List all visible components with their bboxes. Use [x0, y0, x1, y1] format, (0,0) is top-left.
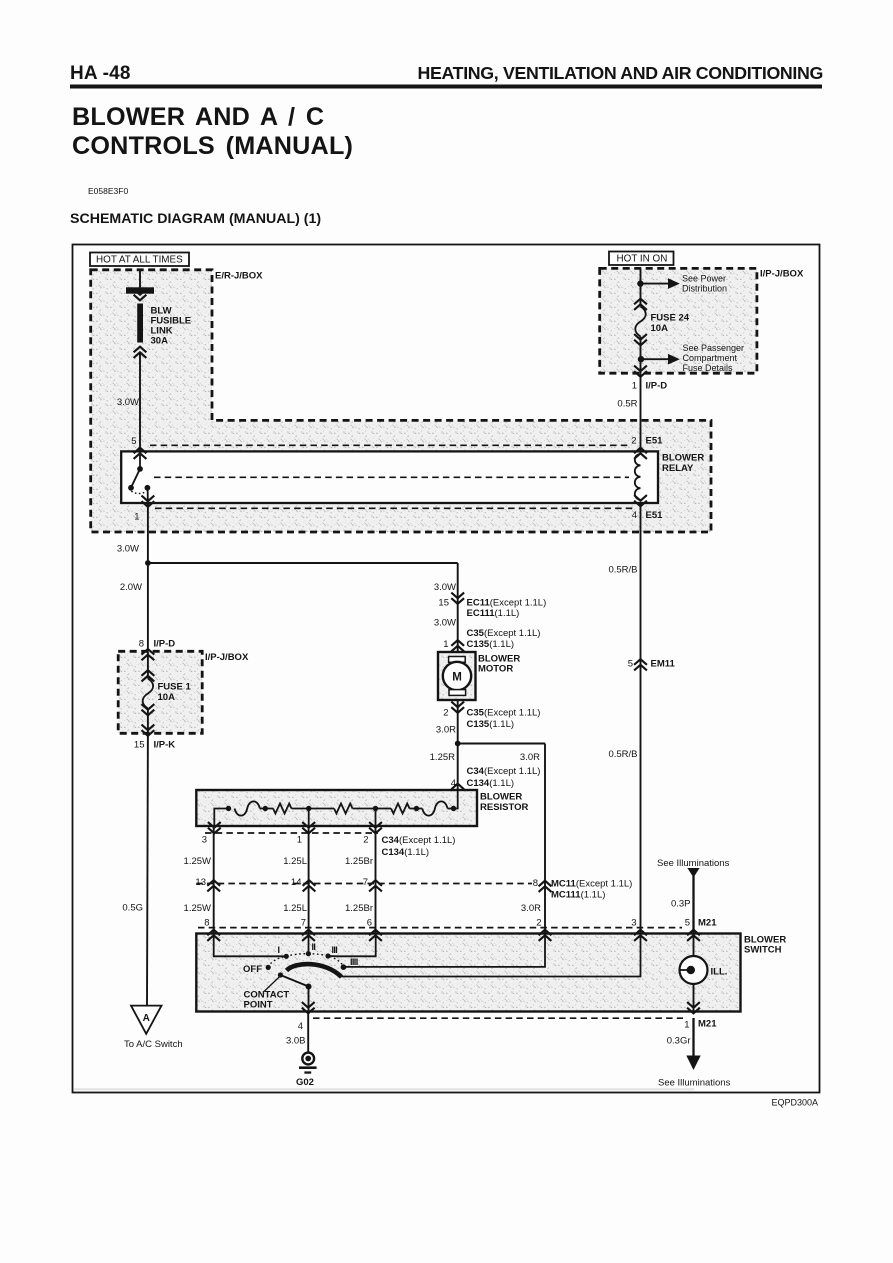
switch pin 1 chevron (lamp return): [687, 1002, 700, 1013]
wire seg: [292, 808, 309, 810]
svg-text:15: 15: [134, 740, 145, 751]
blower motor armature circle: [443, 662, 471, 690]
connector E51 dashed line (top of relay): [150, 444, 631, 446]
wire 1.25L: resistor pin 1 down: [308, 826, 310, 934]
svg-text:BLOWER: BLOWER: [662, 453, 704, 464]
svg-text:To A/C Switch: To A/C Switch: [124, 1039, 183, 1050]
wire 0.3P: illuminations to switch pin 5: [692, 876, 694, 934]
svg-text:7: 7: [363, 877, 368, 888]
relay pin 5 chevron: [134, 448, 147, 459]
svg-text:4: 4: [632, 510, 637, 521]
node: passenger fuse branch junction: [638, 356, 644, 362]
connector MC11 dashed line: [196, 883, 532, 885]
svg-text:See Power: See Power: [682, 274, 726, 284]
relay switch: fixed contact node: [137, 466, 143, 472]
svg-text:MOTOR: MOTOR: [478, 664, 513, 675]
connector EM11 pin 5 chevron: [634, 659, 647, 670]
resistor chain node: [263, 806, 268, 811]
connector C35 pin 2 chevron: [451, 702, 464, 713]
svg-text:3.0W: 3.0W: [117, 397, 139, 408]
tap wire to pin 1: [308, 809, 310, 827]
resistor chain node: [414, 806, 419, 811]
svg-text:Distribution: Distribution: [682, 284, 727, 294]
svg-text:7: 7: [301, 918, 306, 929]
connector chevron below fuse 24: [634, 334, 647, 345]
connector C35 pin 1 chevron: [451, 640, 464, 651]
terminal chevron below fusible link: [134, 347, 147, 358]
relay switch: arm end node: [128, 485, 134, 491]
arrow from illuminations: [687, 868, 699, 878]
header rule: [70, 85, 822, 89]
svg-text:2: 2: [536, 918, 541, 929]
resistor chain: left thermal coil: [235, 801, 260, 815]
E/R-J/BOX dashed region (shaded L-shape with blower relay): [91, 270, 711, 532]
relay switch: wire to pin 1: [147, 488, 149, 503]
relay pin 2 chevron: [634, 448, 647, 459]
ground G02 ring: [302, 1053, 314, 1065]
switch pin 7 chevron: [302, 930, 315, 941]
switch internal: pin 7 drop to contact II: [308, 934, 310, 954]
svg-text:POINT: POINT: [244, 1000, 273, 1011]
svg-text:IIII: IIII: [350, 957, 358, 967]
switch pin 2 chevron: [539, 930, 552, 941]
svg-text:14: 14: [291, 877, 302, 888]
blower relay box: [121, 451, 658, 503]
svg-text:3.0W: 3.0W: [117, 544, 139, 555]
blower resistor box: [196, 790, 477, 826]
svg-text:1.25L: 1.25L: [283, 856, 307, 867]
connector M21 dashed line (switch top): [198, 927, 682, 929]
chain left corner down to pin 3: [214, 809, 228, 827]
connector C34 dashed line (below resistor): [205, 832, 378, 834]
svg-text:M21: M21: [698, 1019, 717, 1030]
svg-text:HEATING, VENTILATION AND AIR C: HEATING, VENTILATION AND AIR CONDITIONIN…: [418, 63, 823, 83]
contact I node: [284, 954, 289, 959]
I/P-J/BOX dashed region (fuse 1): [118, 651, 202, 733]
resistor pin 3 chevron: [208, 822, 221, 833]
svg-text:10A: 10A: [158, 692, 176, 703]
switch internal: pin 8 drop to contact I: [214, 934, 287, 957]
connector I/P-K pin 15 chevron at box edge: [142, 725, 155, 736]
ILL lamp filament dot: [687, 966, 695, 974]
svg-text:1: 1: [297, 835, 302, 846]
resistor chain node: [451, 806, 456, 811]
relay internal dashed link: [154, 476, 629, 478]
contact IIII node: [341, 964, 347, 970]
svg-text:MC111(1.1L): MC111(1.1L): [551, 890, 605, 901]
svg-text:OFF: OFF: [243, 964, 262, 975]
wire 1.25R: junction down to resistor pin 4: [457, 744, 459, 791]
resistor chain node: [226, 806, 231, 811]
resistor chain: pin 4 entry drop: [454, 790, 458, 809]
svg-text:M: M: [452, 672, 462, 684]
svg-text:EM11: EM11: [651, 659, 676, 670]
MC11 pin 8 chevron: [539, 881, 552, 892]
wiper thick arc: [287, 964, 342, 977]
svg-text:I/P-J/BOX: I/P-J/BOX: [760, 269, 804, 280]
svg-text:8: 8: [533, 878, 538, 889]
svg-text:1.25L: 1.25L: [283, 903, 307, 914]
svg-text:RELAY: RELAY: [662, 463, 694, 474]
switch pin 5 chevron: [687, 930, 700, 941]
svg-text:8: 8: [139, 639, 144, 650]
off-page connector A (to A/C switch): [131, 1006, 162, 1034]
svg-text:30A: 30A: [151, 336, 169, 347]
svg-text:I/P-D: I/P-D: [154, 639, 176, 650]
svg-text:M21: M21: [698, 918, 717, 929]
wire seg: [353, 808, 376, 810]
resistor tap node pin 2: [373, 806, 378, 811]
svg-text:C135(1.1L): C135(1.1L): [467, 719, 515, 730]
wire 3.0W: feed down to blower motor: [457, 563, 459, 652]
wire: junction across to blower motor branch: [148, 562, 458, 564]
svg-text:E/R-J/BOX: E/R-J/BOX: [215, 271, 263, 282]
resistor pin 1 chevron: [302, 822, 315, 833]
connector C34 pin 4 chevron: [451, 784, 464, 795]
svg-text:13: 13: [195, 877, 206, 888]
svg-text:3: 3: [202, 835, 207, 846]
svg-text:See Illuminations: See Illuminations: [658, 1078, 731, 1089]
wire 3.0B: pin 4 to ground: [307, 1012, 309, 1053]
wire seg: [448, 808, 454, 810]
ILL lamp bulb: [680, 956, 708, 984]
relay coil: [635, 454, 641, 500]
svg-text:0.5R: 0.5R: [617, 399, 637, 410]
connector chevron above fuse 24: [634, 299, 647, 310]
svg-text:A: A: [143, 1013, 150, 1024]
svg-text:10A: 10A: [651, 323, 669, 334]
svg-text:5: 5: [131, 436, 136, 447]
svg-text:BLOWER: BLOWER: [480, 792, 522, 803]
wire seg: [410, 808, 423, 810]
pivot node: [306, 984, 312, 990]
svg-text:III: III: [332, 945, 338, 955]
ILL lamp lead line: [679, 969, 688, 971]
wire inside fuse 1 box: [147, 651, 149, 678]
MC11 pin 14 chevron: [303, 880, 316, 891]
svg-text:C135(1.1L): C135(1.1L): [467, 639, 515, 650]
svg-text:1: 1: [684, 1020, 689, 1031]
blower motor housing: [438, 652, 476, 700]
connector EC11 pin 15 chevron: [451, 593, 464, 604]
ILL lamp wire (bottom): [693, 984, 695, 1012]
connector M21 dashed line (switch bottom): [313, 1017, 683, 1019]
svg-text:G02: G02: [296, 1077, 314, 1088]
svg-text:C34(Except 1.1L): C34(Except 1.1L): [382, 835, 456, 846]
battery bus bar: [126, 287, 154, 293]
resistor element R3 zigzag: [391, 804, 409, 814]
schematic outer frame: [73, 245, 820, 1093]
switch pin 6 chevron: [369, 930, 382, 941]
wire: junction down to fuse 24: [640, 284, 642, 307]
wire: motor to junction: [457, 700, 459, 744]
svg-text:0.5G: 0.5G: [122, 903, 143, 914]
wire 3.0W: relay pin 1 down to junction: [147, 503, 149, 563]
wire 3.0R: down to blower switch pin 2: [544, 744, 546, 934]
svg-text:FUSE 24: FUSE 24: [651, 313, 690, 324]
wire 1.25W: resistor pin 3 down: [213, 826, 215, 934]
wire 2.0W: junction down to fuse 1: [147, 563, 149, 651]
contact III node: [325, 953, 330, 958]
ground G02 center dot: [305, 1056, 311, 1062]
svg-text:See Passenger: See Passenger: [683, 343, 745, 353]
svg-text:8: 8: [204, 918, 209, 929]
blower motor brush (bottom): [449, 690, 466, 696]
MC11 pin 7 chevron: [369, 880, 382, 891]
svg-text:3.0R: 3.0R: [436, 725, 456, 736]
wire: battery feed into E/R-J/BOX: [139, 270, 141, 288]
wire 3.0R: junction across to switch pin 2 branch: [458, 743, 545, 745]
node: motor return junction: [455, 741, 461, 747]
svg-text:0.5R/B: 0.5R/B: [608, 565, 637, 576]
svg-text:II: II: [312, 942, 316, 952]
svg-text:RESISTOR: RESISTOR: [480, 802, 529, 813]
arrow: see passenger compartment fuse details: [668, 354, 680, 365]
wire seg: [376, 808, 392, 810]
svg-text:C134(1.1L): C134(1.1L): [382, 847, 430, 858]
svg-text:15: 15: [438, 598, 449, 609]
resistor element R1 zigzag: [273, 804, 291, 814]
ILL lamp wire (top): [693, 934, 695, 957]
switch pin 8 chevron: [207, 930, 220, 941]
contact II node: [306, 951, 311, 956]
HOT AT ALL TIMES tag: [90, 253, 189, 267]
wire seg: [260, 808, 266, 810]
tap wire to pin 2: [375, 809, 377, 827]
svg-text:C35(Except 1.1L): C35(Except 1.1L): [467, 628, 541, 639]
svg-text:HOT AT ALL TIMES: HOT AT ALL TIMES: [96, 255, 183, 266]
svg-text:FUSE 1: FUSE 1: [158, 682, 192, 693]
svg-text:1.25Br: 1.25Br: [345, 903, 373, 914]
svg-text:3.0R: 3.0R: [521, 903, 541, 914]
relay pin 1 chevron: [142, 496, 155, 507]
svg-text:6: 6: [367, 918, 372, 929]
wire 1.25Br: resistor pin 2 down: [375, 826, 377, 934]
svg-text:3.0B: 3.0B: [286, 1036, 306, 1047]
svg-text:EC11(Except 1.1L): EC11(Except 1.1L): [467, 598, 547, 609]
relay switch: dotted actuation arc: [131, 491, 146, 493]
svg-text:0.5R/B: 0.5R/B: [608, 749, 637, 760]
wire: battery feed into I/P-J/BOX: [640, 268, 642, 283]
wire: pivot down to pin 4: [308, 987, 310, 1012]
blower switch box: [196, 934, 740, 1012]
relay switch: movable arm: [131, 469, 140, 488]
wire 0.3Gr: switch pin 1 to illuminations: [692, 1018, 694, 1057]
dotted selector arc OFF-I-II-III-IIII: [268, 954, 343, 968]
wire to box bottom: [147, 709, 149, 734]
svg-text:I/P-J/BOX: I/P-J/BOX: [205, 652, 249, 663]
svg-text:1: 1: [134, 512, 139, 523]
svg-text:3: 3: [631, 918, 636, 929]
svg-text:4: 4: [298, 1021, 303, 1032]
fuse 1 upper chevron: [142, 670, 155, 681]
svg-text:I/P-D: I/P-D: [646, 381, 668, 392]
svg-text:E058E3F0: E058E3F0: [88, 186, 128, 196]
fuse 1 lower chevron: [142, 704, 155, 715]
I/P-J/BOX dashed region (top right, fuse 24): [600, 268, 757, 373]
svg-text:E51: E51: [646, 436, 664, 447]
svg-text:1.25W: 1.25W: [184, 903, 211, 914]
switch pin 3 chevron: [634, 930, 647, 941]
svg-text:1.25Br: 1.25Br: [345, 856, 373, 867]
OFF contact node: [266, 965, 271, 970]
svg-text:I: I: [278, 945, 280, 955]
connector E51 dashed line (bottom of relay): [155, 507, 633, 509]
wire 3.0W: fusible link to relay pin 5: [139, 352, 141, 451]
wire: branch to power distribution: [641, 283, 669, 285]
resistor tap node pin 1: [306, 806, 311, 811]
svg-text:5: 5: [628, 659, 633, 670]
svg-text:BLOWER AND A / C: BLOWER AND A / C: [72, 103, 324, 131]
node: blower feed junction: [145, 560, 151, 566]
ground lower dash: [304, 1071, 311, 1073]
svg-text:ILL.: ILL.: [711, 967, 728, 978]
resistor element R2 zigzag: [334, 804, 352, 814]
wiper arm: [280, 975, 308, 987]
MC11 pin 13 chevron: [207, 880, 220, 891]
svg-text:5: 5: [685, 918, 690, 929]
wire: fuse 24 to lower junction: [640, 337, 642, 374]
svg-text:SCHEMATIC DIAGRAM (MANUAL) (1): SCHEMATIC DIAGRAM (MANUAL) (1): [70, 211, 321, 227]
blower motor brush (top): [449, 657, 466, 663]
svg-text:Fuse Details: Fuse Details: [683, 363, 734, 373]
resistor pin 2 chevron: [369, 822, 382, 833]
svg-text:SWITCH: SWITCH: [744, 945, 782, 956]
svg-text:2: 2: [631, 436, 636, 447]
wire: branch to passenger compartment fuses: [641, 358, 668, 360]
svg-text:C34(Except 1.1L): C34(Except 1.1L): [467, 766, 541, 777]
ground bar: [299, 1066, 317, 1069]
contact point leader line: [264, 977, 280, 992]
relay switch: output contact node: [145, 485, 151, 491]
arrow to illuminations (bottom): [686, 1056, 700, 1071]
switch internal: pin 6 drop to contact III: [330, 934, 376, 957]
relay switch: wire from pin 5: [139, 455, 141, 468]
svg-text:0.3Gr: 0.3Gr: [667, 1036, 691, 1047]
svg-text:E51: E51: [646, 510, 664, 521]
svg-text:EC111(1.1L): EC111(1.1L): [467, 608, 520, 619]
fuse F1 (wavy symbol): [143, 679, 154, 709]
relay pin 4 chevron: [634, 495, 647, 506]
wire 0.5R: I/P-D down to relay pin 2: [640, 373, 642, 451]
wire 0.5R/B: relay pin 4 down to blower switch pin 3: [640, 503, 642, 934]
svg-text:3.0W: 3.0W: [434, 618, 456, 629]
svg-text:HA -48: HA -48: [70, 63, 131, 84]
switch internal: pin 3 drop and run to wiper arc: [342, 934, 641, 977]
svg-text:C35(Except 1.1L): C35(Except 1.1L): [467, 708, 541, 719]
svg-text:2.0W: 2.0W: [120, 582, 142, 593]
svg-text:See Illuminations: See Illuminations: [657, 858, 730, 869]
svg-text:0.3P: 0.3P: [671, 899, 691, 910]
svg-text:1.25W: 1.25W: [184, 856, 211, 867]
svg-text:2: 2: [443, 708, 448, 719]
svg-text:1: 1: [443, 639, 448, 650]
arrow: see power distribution: [668, 278, 680, 289]
svg-text:1.25R: 1.25R: [430, 752, 455, 763]
svg-text:MC11(Except 1.1L): MC11(Except 1.1L): [551, 879, 632, 890]
connector I/P-D pin 1 chevron at box edge: [634, 366, 647, 377]
wire 0.5G: fuse 1 down to A/C switch: [146, 733, 149, 1005]
svg-text:3.0R: 3.0R: [520, 752, 540, 763]
wire seg: [309, 808, 334, 810]
fusible link BLW 30A (thick bar): [137, 304, 143, 343]
svg-text:3.0W: 3.0W: [434, 582, 456, 593]
wire seg: [265, 808, 273, 810]
switch pin 4 chevron: [302, 1002, 315, 1013]
svg-text:I/P-K: I/P-K: [154, 740, 176, 751]
scan smudge above bottom frame edge: [74, 1088, 694, 1090]
svg-text:Compartment: Compartment: [683, 353, 738, 363]
wiper contact node: [278, 972, 283, 977]
svg-text:1: 1: [632, 381, 637, 392]
fuse F24 (wavy symbol): [635, 307, 646, 337]
svg-text:EQPD300A: EQPD300A: [771, 1098, 818, 1108]
svg-text:2: 2: [363, 835, 368, 846]
svg-text:CONTROLS (MANUAL): CONTROLS (MANUAL): [72, 132, 353, 160]
resistor chain: right thermal coil: [422, 801, 447, 815]
terminal chevron below bus bar: [134, 289, 147, 300]
switch internal: pin 2 drop and run to position IIII: [343, 934, 545, 967]
HOT IN ON tag: [609, 252, 674, 266]
svg-text:C134(1.1L): C134(1.1L): [467, 778, 515, 789]
svg-text:HOT IN ON: HOT IN ON: [617, 254, 668, 265]
node: fuse 24 feed junction: [637, 280, 643, 286]
connector I/P-D pin 8 chevron at box edge: [142, 649, 155, 660]
